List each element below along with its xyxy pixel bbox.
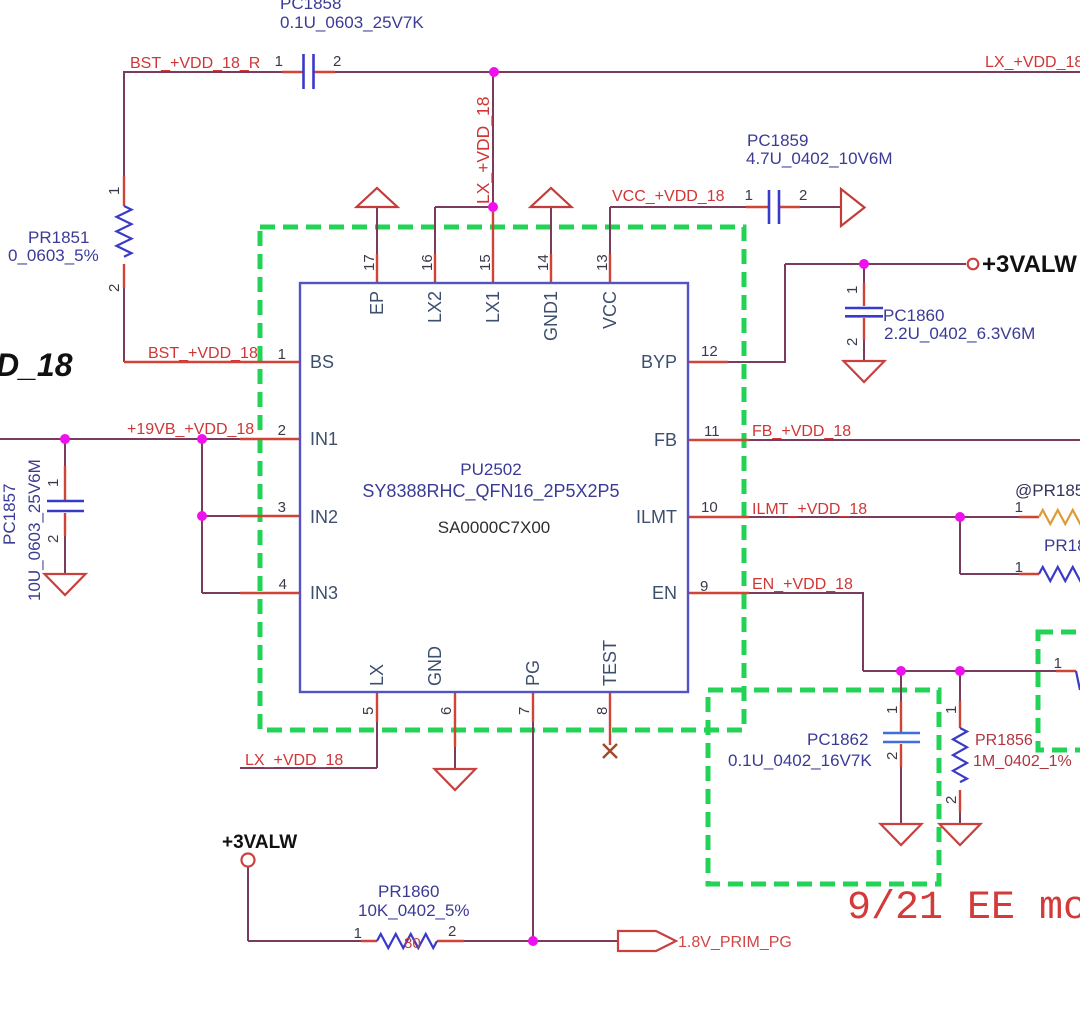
svg-text:GND1: GND1 [541, 291, 561, 341]
svg-text:PR1851: PR1851 [28, 228, 89, 247]
svg-text:EP: EP [367, 291, 387, 315]
svg-text:8: 8 [594, 707, 611, 715]
svg-text:LX_+VDD_18: LX_+VDD_18 [245, 752, 343, 769]
svg-text:PC1857: PC1857 [0, 484, 19, 545]
svg-text:1: 1 [354, 925, 362, 942]
svg-text:9/21 EE mo: 9/21 EE mo [847, 886, 1080, 931]
svg-text:BST_+VDD_18: BST_+VDD_18 [148, 345, 258, 362]
svg-text:7: 7 [516, 707, 533, 715]
svg-text:2: 2 [278, 422, 286, 439]
svg-text:FB_+VDD_18: FB_+VDD_18 [752, 423, 851, 440]
svg-text:PG: PG [523, 660, 543, 686]
svg-text:1M_0402_1%: 1M_0402_1% [973, 753, 1072, 770]
svg-text:14: 14 [535, 254, 552, 271]
svg-text:PR1860: PR1860 [378, 882, 439, 901]
svg-text:PR1855: PR1855 [1044, 536, 1080, 555]
svg-text:FB: FB [654, 430, 677, 450]
svg-text:1: 1 [1015, 559, 1023, 576]
svg-text:0.1U_0402_16V7K: 0.1U_0402_16V7K [728, 751, 872, 770]
svg-text:13: 13 [594, 254, 611, 271]
svg-text:1: 1 [745, 187, 753, 204]
svg-text:4.7U_0402_10V6M: 4.7U_0402_10V6M [746, 149, 893, 168]
svg-text:TEST: TEST [600, 640, 620, 686]
svg-text:3: 3 [278, 499, 286, 516]
svg-text:2: 2 [943, 796, 960, 804]
svg-text:15: 15 [477, 254, 494, 271]
svg-text:2: 2 [799, 187, 807, 204]
svg-text:17: 17 [361, 254, 378, 271]
svg-text:1: 1 [1054, 655, 1062, 672]
svg-text:1: 1 [884, 706, 901, 714]
svg-text:SY8388RHC_QFN16_2P5X2P5: SY8388RHC_QFN16_2P5X2P5 [362, 481, 619, 502]
svg-text:PU2502: PU2502 [460, 460, 521, 479]
svg-text:2: 2 [448, 923, 456, 940]
svg-text:EN_+VDD_18: EN_+VDD_18 [752, 576, 853, 593]
svg-text:EN: EN [652, 583, 677, 603]
svg-text:1: 1 [278, 346, 286, 363]
svg-text:12: 12 [701, 343, 718, 360]
svg-text:1: 1 [844, 286, 861, 294]
svg-text:9: 9 [700, 578, 708, 595]
svg-text:1: 1 [275, 53, 283, 70]
svg-text:@PR1855: @PR1855 [1015, 481, 1080, 500]
svg-text:LX: LX [367, 664, 387, 686]
svg-text:IN1: IN1 [310, 429, 338, 449]
svg-text:11: 11 [704, 423, 720, 440]
svg-text:10K_0402_5%: 10K_0402_5% [358, 901, 470, 920]
svg-text:+3VALW: +3VALW [222, 832, 297, 853]
svg-text:ILMT_+VDD_18: ILMT_+VDD_18 [752, 501, 867, 518]
svg-text:LX1: LX1 [483, 291, 503, 323]
svg-text:2: 2 [844, 338, 861, 346]
svg-text:16: 16 [419, 254, 436, 271]
svg-text:PC1860: PC1860 [883, 306, 944, 325]
svg-text:1: 1 [1015, 499, 1023, 516]
svg-text:VCC: VCC [600, 291, 620, 329]
svg-text:2: 2 [106, 284, 123, 292]
svg-text:1: 1 [45, 479, 62, 487]
svg-text:0_0603_5%: 0_0603_5% [8, 246, 99, 265]
svg-text:10: 10 [701, 499, 718, 516]
svg-text:PC1858: PC1858 [280, 0, 341, 13]
svg-text:5: 5 [360, 707, 377, 715]
svg-text:GND: GND [425, 646, 445, 686]
svg-text:1: 1 [943, 706, 960, 714]
svg-text:80: 80 [404, 935, 421, 952]
svg-text:10U_0603_25V6M: 10U_0603_25V6M [25, 459, 44, 601]
svg-text:4: 4 [279, 576, 287, 593]
svg-text:PC1862: PC1862 [807, 730, 868, 749]
svg-text:0.1U_0603_25V7K: 0.1U_0603_25V7K [280, 13, 424, 32]
svg-text:6: 6 [438, 707, 455, 715]
svg-text:+19VB_+VDD_18: +19VB_+VDD_18 [127, 421, 254, 438]
svg-text:PR1856: PR1856 [975, 732, 1033, 749]
svg-text:+3VALW: +3VALW [982, 251, 1077, 278]
svg-text:ILMT: ILMT [636, 507, 677, 527]
svg-text:LX2: LX2 [425, 291, 445, 323]
svg-text:VCC_+VDD_18: VCC_+VDD_18 [612, 188, 725, 205]
svg-text:BST_+VDD_18_R: BST_+VDD_18_R [130, 55, 260, 72]
svg-text:BS: BS [310, 352, 334, 372]
svg-text:BYP: BYP [641, 352, 677, 372]
svg-text:PC1859: PC1859 [747, 131, 808, 150]
svg-text:2: 2 [884, 752, 901, 760]
svg-text:IN2: IN2 [310, 507, 338, 527]
svg-text:1: 1 [106, 187, 123, 195]
svg-text:IN3: IN3 [310, 583, 338, 603]
svg-text:2: 2 [45, 535, 62, 543]
svg-text:D_18: D_18 [0, 347, 73, 383]
svg-text:LX_+VDD_18: LX_+VDD_18 [473, 96, 494, 204]
svg-text:2.2U_0402_6.3V6M: 2.2U_0402_6.3V6M [884, 324, 1035, 343]
svg-text:SA0000C7X00: SA0000C7X00 [438, 518, 550, 537]
svg-text:2: 2 [333, 53, 341, 70]
svg-text:1.8V_PRIM_PG: 1.8V_PRIM_PG [678, 934, 792, 951]
svg-text:LX_+VDD_18: LX_+VDD_18 [985, 54, 1080, 71]
